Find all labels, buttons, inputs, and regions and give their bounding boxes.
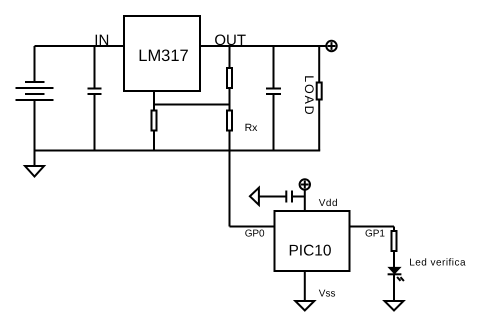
resistor R1 xyxy=(227,68,232,88)
supply arrow xyxy=(250,188,259,205)
terminal + Vdd xyxy=(300,179,310,189)
capacitor C3 xyxy=(286,191,292,203)
ground (LED) xyxy=(385,301,404,311)
wire: R3 to LED xyxy=(393,251,395,268)
wire: input capacitor bottom xyxy=(94,94,96,151)
svg-text:Led verifica: Led verifica xyxy=(409,258,466,269)
svg-text:GP1: GP1 xyxy=(365,228,385,239)
wire: GP0 horizontal xyxy=(230,226,275,228)
svg-text:PIC10: PIC10 xyxy=(288,243,331,260)
wire: ground stub at battery xyxy=(34,151,36,167)
resistor R3 xyxy=(392,231,397,251)
wire: battery negative down xyxy=(34,100,36,151)
resistor R2 xyxy=(152,111,157,131)
resistor Rx xyxy=(227,111,232,131)
capacitor C1 xyxy=(88,89,102,95)
capacitor C2 xyxy=(266,89,281,95)
wire: battery top stub xyxy=(34,46,36,82)
wire: input capacitor top xyxy=(94,46,96,89)
ground (battery) xyxy=(25,166,44,177)
wire: R1 top xyxy=(229,46,231,68)
svg-text:Rx: Rx xyxy=(245,122,259,134)
wire: ADJ horizontal xyxy=(154,104,230,106)
wire: output capacitor top xyxy=(273,46,275,89)
wire: OUT rail xyxy=(200,45,326,47)
svg-text:IN: IN xyxy=(94,32,109,49)
wire: load bottom xyxy=(318,100,320,151)
battery BT1 xyxy=(16,82,54,100)
wire: load top xyxy=(318,46,320,83)
wire: R3 top stub xyxy=(393,227,395,232)
wire: R1 bottom to ADJ node xyxy=(229,88,231,111)
wire: output capacitor bottom xyxy=(273,94,275,151)
ground (Vss) xyxy=(295,301,314,311)
svg-text:Vdd: Vdd xyxy=(319,198,338,209)
IC U2 PIC10 xyxy=(275,211,350,271)
regulator U1 LM317 xyxy=(124,16,200,91)
svg-text:LOAD: LOAD xyxy=(302,75,316,115)
wire: GP1 horizontal xyxy=(350,226,395,228)
wire: R2 bottom to ground rail xyxy=(153,131,155,151)
svg-text:GP0: GP0 xyxy=(245,228,265,239)
LED D1 xyxy=(387,267,404,281)
wire: Rx bottom sense line to GP0 xyxy=(229,131,231,227)
svg-text:Vss: Vss xyxy=(319,288,336,299)
wire: ADJ stub from LM317 xyxy=(153,91,155,111)
wire: Vdd stub xyxy=(304,190,306,211)
wire: Vdd to bypass capacitor xyxy=(292,196,305,198)
svg-text:LM317: LM317 xyxy=(138,47,188,65)
svg-text:OUT: OUT xyxy=(214,32,246,49)
wire: LED to ground xyxy=(393,275,395,301)
wire: battery positive to IN rail xyxy=(35,45,125,47)
wire: bypass capacitor to supply arrow xyxy=(259,196,286,198)
wire: ground rail xyxy=(34,150,321,152)
wire: Vss stub xyxy=(304,271,306,301)
terminal + output xyxy=(326,41,336,51)
load RL xyxy=(317,83,322,100)
